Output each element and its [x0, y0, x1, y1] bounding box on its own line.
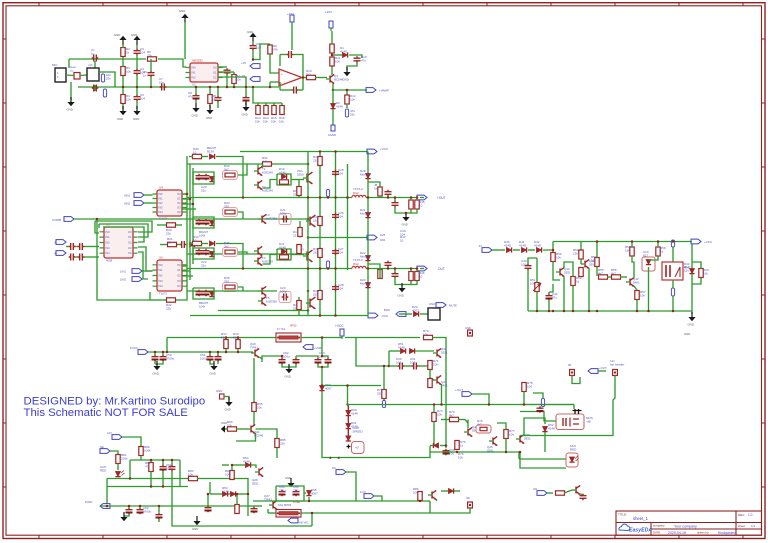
wire — [302, 77, 306, 79]
svg-text:25v: 25v — [106, 76, 111, 80]
svg-text:L2V: L2V — [107, 431, 112, 435]
snubber — [277, 174, 291, 185]
wire — [122, 57, 124, 67]
wire — [179, 460, 181, 487]
power transistor — [303, 250, 312, 262]
bus — [348, 404, 575, 406]
wire — [201, 156, 208, 158]
junction — [319, 150, 322, 153]
svg-text:O4: O4 — [128, 251, 132, 255]
wire — [75, 256, 78, 258]
wire — [68, 59, 70, 68]
polar cap — [279, 490, 286, 497]
resistor — [252, 403, 256, 412]
polar cap — [315, 358, 322, 365]
svg-text:1k: 1k — [126, 50, 130, 54]
svg-text:GND: GND — [117, 117, 123, 121]
wire — [298, 310, 300, 316]
capacitor — [69, 254, 76, 261]
wire — [296, 356, 318, 358]
svg-text:220k: 220k — [121, 456, 128, 460]
bus — [100, 505, 248, 507]
wire — [564, 262, 573, 277]
polar cap — [293, 490, 300, 497]
wire — [429, 501, 431, 513]
junction — [596, 310, 599, 313]
junction — [329, 457, 331, 459]
capacitor — [292, 87, 299, 94]
svg-text:1k: 1k — [460, 443, 464, 447]
polar cap — [152, 355, 159, 362]
wire — [395, 278, 417, 285]
svg-text:10W: 10W — [199, 304, 205, 308]
capacitor — [385, 261, 392, 268]
svg-text:4k7: 4k7 — [449, 413, 454, 417]
diode — [319, 385, 324, 390]
wire — [95, 221, 99, 233]
svg-text:1k: 1k — [576, 279, 580, 283]
wire — [66, 246, 69, 248]
wire — [253, 506, 255, 507]
svg-text:This Schematic NOT FOR SALE: This Schematic NOT FOR SALE — [24, 407, 189, 419]
wire — [117, 464, 119, 471]
svg-text:817: 817 — [643, 253, 648, 257]
wire — [497, 423, 506, 430]
mosfet inner — [563, 418, 566, 426]
bundle wire — [189, 164, 191, 280]
wire — [572, 376, 580, 384]
wire — [344, 404, 346, 406]
bus — [74, 218, 308, 220]
wire — [458, 419, 465, 421]
svg-text:4148: 4148 — [279, 245, 286, 249]
wire — [144, 202, 153, 204]
capacitor — [282, 294, 289, 301]
wire — [564, 490, 572, 493]
resistor — [382, 390, 386, 399]
svg-text:FUSE: FUSE — [293, 500, 300, 504]
svg-text:IN2: IN2 — [159, 274, 164, 278]
svg-text:2020-04-18: 2020-04-18 — [668, 531, 686, 535]
junction — [252, 58, 255, 61]
wire — [374, 496, 382, 501]
feedback capacitor — [287, 51, 294, 58]
wire — [129, 460, 131, 479]
wire — [387, 196, 389, 198]
IC U4 upper — [157, 190, 182, 216]
wire — [245, 102, 247, 105]
wire — [184, 22, 186, 59]
junction — [588, 310, 591, 313]
wire — [189, 243, 193, 245]
wire 4-res top — [253, 87, 282, 103]
wire — [346, 472, 356, 501]
connector MIC1 — [55, 68, 66, 82]
bus — [253, 500, 330, 502]
wire — [633, 270, 635, 278]
svg-text:IN1: IN1 — [159, 197, 164, 201]
wire — [136, 45, 138, 49]
svg-text:+: + — [281, 72, 283, 76]
wire — [632, 256, 634, 270]
resistor — [318, 217, 322, 226]
resistor — [281, 103, 283, 105]
svg-text:47u: 47u — [361, 58, 366, 62]
bus out+ — [187, 197, 352, 199]
transistor — [255, 467, 263, 476]
svg-text:1u: 1u — [70, 68, 74, 72]
rail mid — [308, 237, 368, 239]
junction — [536, 310, 539, 313]
svg-text:10k: 10k — [640, 293, 645, 297]
wire — [84, 246, 99, 248]
resistor — [298, 228, 302, 237]
svg-text:+VAMP: +VAMP — [379, 89, 389, 93]
svg-text:NE: NE — [100, 445, 104, 449]
capacitor — [92, 55, 99, 62]
wire — [293, 55, 303, 78]
diode — [365, 212, 370, 217]
red pad fan — [613, 370, 618, 376]
bundle wire — [192, 168, 194, 264]
wire — [419, 500, 421, 503]
capacitor — [392, 272, 399, 279]
rail — [335, 152, 337, 316]
svg-text:Mur120: Mur120 — [360, 281, 371, 285]
net flag +OUT — [588, 369, 598, 374]
wire — [150, 299, 166, 301]
wire — [536, 258, 538, 283]
polar cap — [160, 355, 167, 362]
junction — [209, 86, 212, 89]
ground — [405, 212, 407, 217]
wire — [429, 370, 431, 379]
wire — [301, 512, 430, 514]
wire — [253, 412, 255, 426]
capacitor — [69, 243, 76, 250]
svg-text:330: 330 — [224, 279, 229, 283]
wire — [269, 82, 271, 87]
polar cap — [137, 508, 144, 515]
svg-text:+OUT: +OUT — [599, 366, 607, 370]
wire — [238, 212, 243, 219]
svg-text:MJE340: MJE340 — [262, 259, 273, 263]
junction — [307, 218, 310, 221]
net flag — [134, 193, 144, 198]
wire — [649, 256, 659, 260]
svg-text:-57: -57 — [478, 244, 482, 248]
svg-text:10k: 10k — [126, 97, 131, 101]
svg-text:22k: 22k — [166, 231, 171, 235]
svg-text:O3: O3 — [177, 205, 181, 209]
resistor — [579, 268, 583, 277]
svg-text:2k2: 2k2 — [306, 72, 311, 76]
wire — [122, 76, 124, 94]
resistor — [121, 48, 125, 57]
resistor — [345, 95, 349, 104]
svg-text:+15V: +15V — [325, 10, 332, 14]
wire — [416, 198, 418, 201]
wire — [160, 244, 167, 246]
wire — [252, 41, 254, 44]
svg-text:5B: 5B — [221, 335, 225, 339]
wire — [441, 490, 448, 492]
optocoupler box — [642, 257, 655, 271]
svg-text:4148: 4148 — [243, 459, 250, 463]
ground top — [184, 18, 186, 23]
transistor — [464, 427, 472, 436]
svg-text:10k: 10k — [271, 119, 276, 123]
svg-text:Mur120: Mur120 — [360, 211, 371, 215]
wire — [172, 487, 197, 527]
wire — [416, 269, 418, 272]
resistor — [228, 427, 237, 431]
wire — [156, 224, 158, 226]
svg-text:-dB: -dB — [586, 419, 591, 423]
op-amp IC U2 — [190, 63, 218, 82]
transistor — [258, 296, 266, 305]
svg-text:-: - — [281, 81, 282, 85]
rail +VCC — [240, 151, 368, 153]
svg-text:+VCC: +VCC — [704, 240, 713, 244]
wire — [210, 361, 214, 364]
polar cap blue — [101, 74, 104, 82]
wire — [248, 505, 262, 507]
svg-text:GN: GN — [533, 487, 537, 491]
svg-text:220: 220 — [313, 158, 318, 162]
wire — [420, 197, 424, 199]
wire — [224, 397, 229, 401]
wire — [346, 90, 348, 95]
wire — [142, 270, 153, 272]
wire — [404, 365, 412, 367]
diode — [413, 311, 418, 316]
wire — [410, 281, 412, 285]
wire — [291, 25, 293, 50]
wire — [122, 437, 141, 446]
capacitor — [525, 264, 532, 271]
resistor — [656, 247, 660, 256]
wire — [130, 456, 141, 461]
transistor — [556, 267, 564, 276]
ground — [213, 361, 215, 366]
wire — [367, 151, 368, 153]
svg-text:10k: 10k — [188, 472, 193, 476]
svg-text:O3: O3 — [128, 246, 132, 250]
resistor — [193, 154, 202, 158]
wire — [155, 361, 163, 364]
junction — [563, 310, 566, 313]
wire — [75, 246, 78, 248]
svg-text:GND: GND — [242, 113, 248, 117]
wire — [465, 420, 468, 424]
net flag — [288, 518, 298, 523]
svg-text:GND: GND — [67, 108, 73, 112]
svg-text:GND: GND — [343, 78, 349, 82]
svg-text:B136: B136 — [207, 149, 214, 153]
resistor — [208, 95, 212, 104]
svg-text:SPEED: SPEED — [353, 429, 364, 433]
wire — [136, 75, 138, 95]
resistor — [232, 75, 236, 84]
wire — [253, 44, 270, 60]
resistor — [595, 258, 599, 267]
wire — [383, 399, 385, 401]
node main bus — [78, 86, 279, 88]
wire — [492, 249, 505, 251]
svg-text:100: 100 — [527, 384, 532, 388]
capacitor — [215, 96, 222, 103]
wire — [563, 276, 565, 311]
wire — [84, 256, 99, 258]
wire — [322, 356, 328, 358]
wire — [588, 268, 590, 311]
svg-text:F= 5A: F= 5A — [277, 327, 285, 331]
svg-text:10A SPKR: 10A SPKR — [278, 503, 291, 507]
svg-text:U6: U6 — [159, 256, 163, 260]
wire — [356, 338, 389, 367]
svg-text:O0: O0 — [213, 66, 217, 70]
svg-text:GND: GND — [192, 527, 198, 531]
svg-text:104: 104 — [338, 214, 343, 218]
svg-text:MJE350: MJE350 — [266, 299, 277, 303]
svg-text:10k: 10k — [236, 77, 241, 81]
svg-text:O4: O4 — [177, 210, 181, 214]
svg-text:22: 22 — [293, 233, 297, 237]
wire — [128, 506, 130, 508]
fuse SPKR — [276, 510, 301, 518]
wire — [158, 519, 160, 522]
bottom bus — [528, 311, 692, 314]
wire — [195, 100, 197, 103]
wire — [280, 89, 293, 91]
wire — [236, 428, 247, 430]
wire — [97, 219, 150, 300]
junction — [226, 86, 229, 89]
svg-text:O1: O1 — [128, 235, 132, 239]
net flag — [436, 303, 446, 308]
svg-text:GND: GND — [684, 332, 690, 336]
wire — [237, 338, 239, 340]
wire — [177, 244, 181, 246]
svg-text:GND: GND — [210, 372, 216, 376]
diode — [346, 410, 351, 415]
wire — [291, 179, 304, 181]
wire — [201, 243, 208, 245]
rounded resistor — [476, 425, 491, 433]
ground — [209, 105, 211, 110]
svg-text:GND: GND — [465, 326, 471, 330]
svg-text:O0: O0 — [177, 263, 181, 267]
wire — [189, 156, 193, 158]
svg-text:MJE350: MJE350 — [266, 216, 277, 220]
wire — [99, 224, 148, 237]
svg-text:1u: 1u — [91, 51, 95, 55]
wire — [268, 512, 276, 514]
svg-text:10: 10 — [419, 203, 423, 207]
svg-text:DESIGNED by: Mr.Kartino Surodi: DESIGNED by: Mr.Kartino Surodipo — [24, 396, 206, 408]
svg-text:100u: 100u — [521, 262, 528, 266]
svg-text:TL072: TL072 — [159, 292, 167, 296]
svg-text:IN3: IN3 — [106, 246, 111, 250]
capacitor — [134, 69, 141, 76]
svg-text:10k: 10k — [227, 423, 232, 427]
rail -VCC — [190, 315, 370, 317]
svg-text:R/L2: R/L2 — [353, 191, 359, 195]
bus — [148, 351, 253, 353]
svg-text:+VCC: +VCC — [335, 324, 344, 328]
junction — [346, 196, 349, 199]
junction — [572, 310, 575, 313]
diode — [330, 103, 335, 108]
resistor — [257, 103, 259, 105]
wire — [276, 448, 278, 459]
svg-text:GND: GND — [153, 372, 159, 376]
svg-text:104: 104 — [338, 250, 343, 254]
wire — [672, 280, 674, 288]
transistor — [433, 348, 441, 357]
diode — [230, 491, 235, 496]
wire — [523, 392, 525, 405]
svg-text:NE5532: NE5532 — [192, 59, 203, 63]
transistor — [251, 348, 259, 357]
svg-text:GND: GND — [247, 30, 253, 34]
wire — [454, 490, 460, 492]
svg-text:10: 10 — [193, 150, 197, 154]
svg-text:10k: 10k — [263, 119, 268, 123]
rail — [347, 164, 349, 270]
wire — [279, 82, 281, 90]
svg-text:PVAD: PVAD — [85, 500, 92, 504]
svg-text:10k: 10k — [225, 472, 230, 476]
resistor — [318, 249, 322, 258]
wire — [150, 59, 152, 71]
wire — [182, 198, 190, 200]
svg-text:100p: 100p — [280, 211, 287, 215]
svg-text:5401: 5401 — [633, 280, 640, 284]
svg-text:10u: 10u — [159, 80, 164, 84]
wire — [216, 244, 243, 269]
wire — [648, 267, 650, 311]
svg-text:O3: O3 — [177, 279, 181, 283]
wire — [289, 364, 296, 367]
resistor — [189, 476, 198, 480]
resistor — [428, 361, 432, 370]
svg-text:IN4: IN4 — [159, 210, 164, 214]
wire — [430, 508, 470, 513]
wire — [366, 89, 367, 91]
transistor — [489, 436, 497, 445]
transistor — [428, 490, 436, 499]
wire box — [276, 486, 304, 501]
polar cap — [156, 513, 163, 520]
wire — [387, 267, 389, 269]
caps cluster — [196, 174, 203, 181]
svg-text:DATE:: DATE: — [653, 531, 661, 535]
svg-text:REV:: REV: — [738, 513, 745, 517]
wire — [270, 81, 279, 83]
junction — [548, 310, 551, 313]
junction — [672, 310, 675, 313]
capacitor — [134, 49, 141, 56]
svg-text:IN2: IN2 — [192, 76, 197, 80]
red pad 3P — [570, 370, 575, 376]
wire — [176, 224, 182, 226]
svg-text:GND: GND — [133, 117, 139, 121]
wire — [195, 87, 197, 95]
wire — [232, 464, 245, 466]
polar cap — [443, 449, 450, 456]
